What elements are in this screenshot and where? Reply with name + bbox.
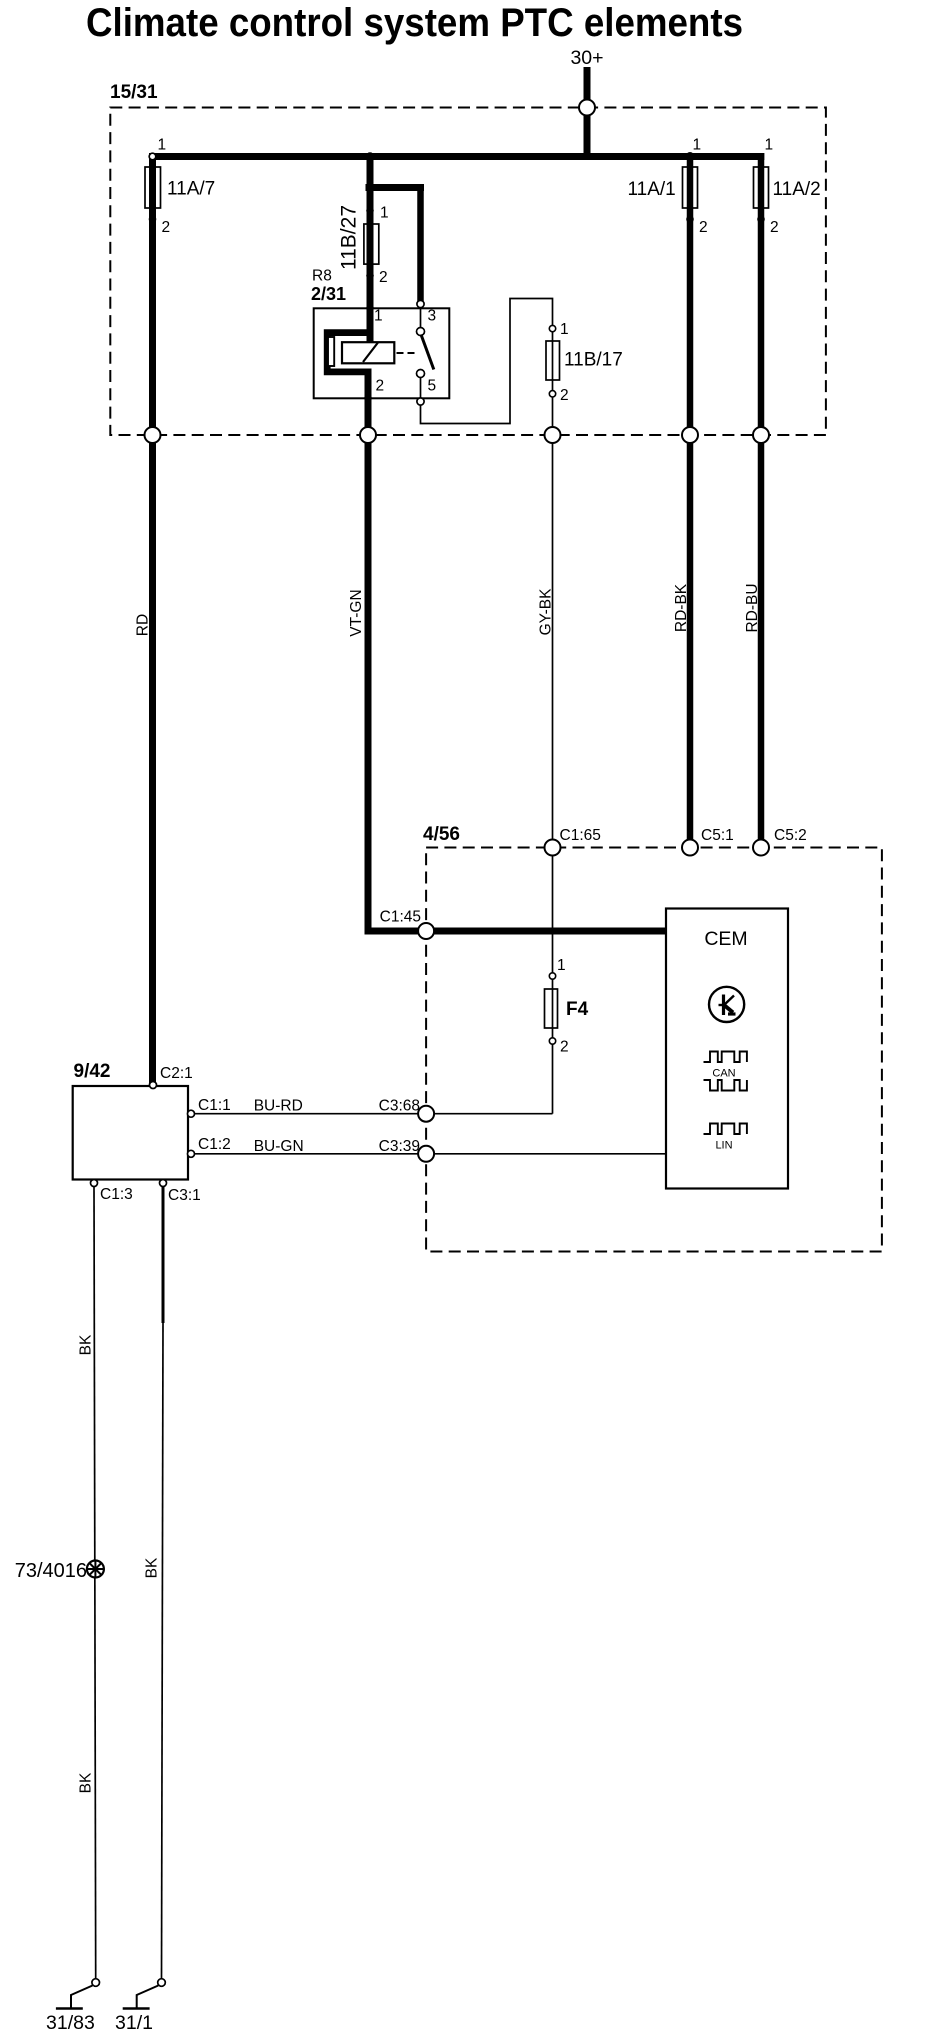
relay switch upper contact wire xyxy=(420,307,422,327)
wire to relay pin 3 xyxy=(417,184,424,306)
relay pin 2 wire xyxy=(365,371,372,435)
svg-text:1: 1 xyxy=(765,137,774,154)
svg-text:73/4016: 73/4016 xyxy=(15,1560,87,1582)
connector C1:65 xyxy=(545,840,561,856)
ground bar 31/1 xyxy=(123,2007,150,2010)
node RD-BU at 15/31 bottom xyxy=(753,427,769,443)
node RD at 15/31 bottom xyxy=(145,427,161,443)
svg-text:LIN: LIN xyxy=(715,1140,732,1152)
fuse F4 terminal 2 xyxy=(549,1038,555,1044)
wire GY-BK 11B/17 to F4 xyxy=(552,397,554,976)
fuse 11B/17 body xyxy=(546,341,560,380)
terminal 1 of 11B/17 xyxy=(549,325,555,331)
svg-text:C5:2: C5:2 xyxy=(774,827,807,844)
svg-text:BK: BK xyxy=(144,1557,161,1578)
svg-text:C1:3: C1:3 xyxy=(100,1186,133,1203)
PTC unit 9/42 box xyxy=(73,1086,188,1180)
ground bar 31/83 xyxy=(56,2007,83,2010)
wire fuse 11A/2 branch xyxy=(758,153,765,848)
relay coil diagonal xyxy=(363,343,378,363)
CAN bus symbol upper wave xyxy=(704,1052,747,1063)
svg-text:1: 1 xyxy=(557,957,566,974)
wire relay pin 5 to fuse 11B/17 xyxy=(421,299,553,424)
wire BU-GN C1:2 to CEM xyxy=(191,1153,668,1155)
svg-text:C1:2: C1:2 xyxy=(198,1136,231,1153)
connector C3:39 xyxy=(418,1146,434,1162)
svg-text:2/31: 2/31 xyxy=(311,284,346,304)
wire fuse 11A/7 to node xyxy=(149,153,156,435)
junction dot bus/11A/1 xyxy=(686,152,695,161)
svg-text:5: 5 xyxy=(428,378,437,395)
svg-text:BU-RD: BU-RD xyxy=(254,1098,303,1115)
svg-text:31/1: 31/1 xyxy=(115,2012,153,2034)
relay switch lower contact xyxy=(417,370,425,378)
svg-text:2: 2 xyxy=(162,219,171,236)
fuse F4 body xyxy=(545,989,558,1028)
terminal 2 of 11A/1 xyxy=(686,216,694,224)
svg-text:C3:39: C3:39 xyxy=(379,1138,420,1155)
connector C1:1 xyxy=(188,1110,195,1117)
diagnostic K symbol circle xyxy=(709,987,744,1022)
svg-text:VT-GN: VT-GN xyxy=(348,589,365,636)
node RD-BK at 15/31 bottom xyxy=(682,427,698,443)
svg-text:4/56: 4/56 xyxy=(423,824,460,845)
terminal 2 of 11A/2 xyxy=(757,216,765,224)
svg-text:BK: BK xyxy=(78,1772,95,1793)
CEM box 4/56 (dashed) xyxy=(426,848,882,1252)
junction dot bus/relay feed xyxy=(366,152,374,160)
svg-text:C1:1: C1:1 xyxy=(198,1097,231,1114)
connector C5:2 xyxy=(753,840,769,856)
svg-text:11A/1: 11A/1 xyxy=(628,179,676,200)
relay pin 1 wire into coil xyxy=(367,303,374,343)
node 30+ on 15/31 edge xyxy=(579,100,595,116)
terminal 2 of 11B/27 xyxy=(366,272,374,280)
relay coil plate xyxy=(328,337,334,366)
svg-text:1: 1 xyxy=(693,137,702,154)
svg-text:C2:1: C2:1 xyxy=(160,1065,193,1082)
svg-text:11B/17: 11B/17 xyxy=(564,350,623,371)
svg-text:30+: 30+ xyxy=(570,47,603,69)
fuse 11A/7 body xyxy=(145,167,161,208)
svg-text:RD: RD xyxy=(135,614,152,636)
svg-text:31/83: 31/83 xyxy=(46,2012,95,2034)
relay dashed actuator link xyxy=(397,352,419,354)
relay coil body xyxy=(342,342,394,363)
relay coil bracket conductor xyxy=(327,333,371,372)
K symbol strokes xyxy=(722,995,725,1016)
wire 30+ feed xyxy=(584,67,591,160)
svg-text:RD-BU: RD-BU xyxy=(744,583,761,632)
svg-text:BK: BK xyxy=(78,1334,95,1355)
svg-text:2: 2 xyxy=(560,387,569,404)
wire VT-GN relay pin2 to CEM C1:45 xyxy=(368,398,668,931)
fuse 11A/1 body xyxy=(683,167,698,208)
relay switch arm xyxy=(421,335,434,370)
wire BU-RD C1:1 to F4 xyxy=(191,1113,553,1115)
terminal 2 of 11A/7 xyxy=(149,216,157,224)
connector C1:3 xyxy=(91,1180,98,1187)
connector C3:68 xyxy=(418,1106,434,1122)
svg-text:1: 1 xyxy=(158,137,167,154)
svg-text:1: 1 xyxy=(374,308,383,325)
wire BK C1:3 to ground 31/83 xyxy=(94,1187,96,1980)
terminal 1 of 11A/7 xyxy=(149,153,156,160)
ground lead 31/1 xyxy=(137,1986,159,2009)
fuse box 15/31 (dashed) xyxy=(110,108,826,436)
svg-text:GY-BK: GY-BK xyxy=(538,588,555,635)
svg-text:Climate control system PTC ele: Climate control system PTC elements xyxy=(86,1,743,45)
svg-text:CAN: CAN xyxy=(712,1068,735,1080)
node GY-BK at 15/31 bottom xyxy=(545,427,561,443)
relay pin 3 terminal xyxy=(417,300,424,307)
connector C1:2 xyxy=(188,1150,195,1157)
svg-text:C1:65: C1:65 xyxy=(560,827,601,844)
svg-text:2: 2 xyxy=(699,219,708,236)
connector C5:1 xyxy=(682,840,698,856)
fuse 11B/27 body xyxy=(364,224,379,264)
CEM control module box xyxy=(666,909,788,1189)
relay switch upper contact xyxy=(417,328,425,336)
fuse 11A/2 body xyxy=(754,167,769,208)
terminal 1 of 11B/27 xyxy=(366,207,374,215)
wire BK C3:1 to ground 31/1 upper xyxy=(162,1187,165,1324)
svg-text:1: 1 xyxy=(380,205,389,222)
svg-text:11A/2: 11A/2 xyxy=(773,179,821,200)
relay R8 box xyxy=(314,308,450,398)
LIN bus symbol wave xyxy=(704,1124,747,1135)
CAN bus symbol lower wave xyxy=(704,1080,747,1091)
connector C3:1 xyxy=(160,1180,167,1187)
node VT-GN at 15/31 bottom xyxy=(360,427,376,443)
wire relay feed from bus xyxy=(367,153,374,343)
relay pin 5 wire xyxy=(420,378,422,400)
svg-text:C5:1: C5:1 xyxy=(701,827,734,844)
wire through fuse 11B/17 xyxy=(552,332,554,391)
svg-text:3: 3 xyxy=(428,308,437,325)
svg-text:CEM: CEM xyxy=(704,928,747,950)
svg-text:C1:45: C1:45 xyxy=(380,909,421,926)
splice 73/4016 xyxy=(87,1561,104,1578)
svg-text:9/42: 9/42 xyxy=(74,1061,111,1082)
svg-text:2: 2 xyxy=(379,269,388,286)
wire through fuse F4 xyxy=(552,979,554,1041)
svg-text:1: 1 xyxy=(560,321,569,338)
svg-text:2: 2 xyxy=(770,219,779,236)
wire RD down to 9/42 xyxy=(149,435,156,1085)
svg-text:RD-BK: RD-BK xyxy=(673,583,690,632)
wire fuse 11A/1 branch xyxy=(687,153,694,848)
terminal dot relay pin 2 xyxy=(364,395,372,403)
svg-text:11A/7: 11A/7 xyxy=(167,179,215,200)
wire stub to relay pin 3 xyxy=(366,184,425,191)
svg-text:2: 2 xyxy=(560,1039,569,1056)
wire BK C3:1 to ground 31/1 lower xyxy=(162,1323,164,1979)
connector C2:1 xyxy=(150,1082,157,1089)
relay pin 5 terminal xyxy=(417,398,424,405)
svg-text:R8: R8 xyxy=(312,268,332,285)
terminal 2 of 11B/17 xyxy=(549,391,555,397)
connector C1:45 xyxy=(418,923,434,939)
terminal dot relay pin 1 xyxy=(366,305,374,313)
ground terminal 31/83 xyxy=(92,1979,100,1987)
svg-text:11B/27: 11B/27 xyxy=(338,205,361,270)
svg-text:15/31: 15/31 xyxy=(110,82,158,103)
svg-text:F4: F4 xyxy=(566,999,589,1020)
svg-text:C3:68: C3:68 xyxy=(379,1098,420,1115)
fuse F4 terminal 1 xyxy=(549,973,555,979)
wire F4 to C3:68 xyxy=(552,1044,554,1114)
svg-text:2: 2 xyxy=(376,378,385,395)
svg-text:C3:1: C3:1 xyxy=(168,1187,201,1204)
ground lead 31/83 xyxy=(71,1986,93,2009)
ground terminal 31/1 xyxy=(158,1979,166,1987)
wire main 30+ bus xyxy=(149,153,764,160)
svg-text:BU-GN: BU-GN xyxy=(254,1138,304,1155)
